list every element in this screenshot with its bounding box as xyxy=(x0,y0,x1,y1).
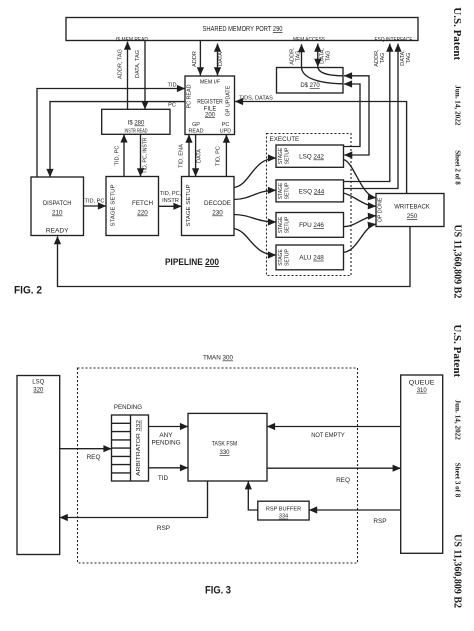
svg-text:200: 200 xyxy=(205,112,216,118)
svg-text:Sheet 3 of 8: Sheet 3 of 8 xyxy=(454,463,462,498)
wire NOT EMPTY queue to task fsm xyxy=(267,426,401,428)
wire TID,PC dispatch to fetch xyxy=(84,205,107,207)
svg-text:SETUP: SETUP xyxy=(285,147,291,164)
svg-text:250: 250 xyxy=(407,213,418,220)
svg-text:320: 320 xyxy=(33,388,44,394)
svg-text:GP: GP xyxy=(192,122,200,128)
svg-text:ESQ 244: ESQ 244 xyxy=(299,188,325,195)
svg-text:TID, PC,: TID, PC, xyxy=(160,191,182,197)
svg-text:PENDING: PENDING xyxy=(151,440,180,447)
wire REQ lsq to arbitrator xyxy=(60,448,112,450)
wire ADDR mem access up + D$ curve xyxy=(302,44,344,84)
svg-text:UPD: UPD xyxy=(220,128,231,134)
wire TID,ENA decode to register file xyxy=(188,135,190,177)
svg-text:FIG. 3: FIG. 3 xyxy=(205,585,231,597)
fetch 220 xyxy=(106,177,159,236)
pending queue slots xyxy=(112,423,131,473)
svg-text:DATA, TAG: DATA, TAG xyxy=(135,50,141,78)
svg-text:READ: READ xyxy=(189,128,204,134)
svg-text:TID, ENA: TID, ENA xyxy=(179,144,185,168)
writeback 250 xyxy=(376,194,444,227)
svg-text:NOT EMPTY: NOT EMPTY xyxy=(311,432,345,439)
wire decode to ALU xyxy=(234,229,276,256)
queue 310 xyxy=(401,375,443,553)
wire LSQ data to D$ double xyxy=(344,76,369,155)
svg-text:MEM I/F: MEM I/F xyxy=(200,80,221,86)
svg-text:TAG: TAG xyxy=(406,52,412,63)
svg-text:210: 210 xyxy=(52,210,63,217)
svg-text:ESQ INTERFACE: ESQ INTERFACE xyxy=(375,37,413,43)
wire RSP queue to rsp buffer xyxy=(309,509,401,511)
svg-text:LSQ: LSQ xyxy=(32,380,44,386)
svg-text:STAGE SETUP: STAGE SETUP xyxy=(186,184,192,226)
svg-text:TID, PC: TID, PC xyxy=(115,146,121,166)
svg-text:PENDING: PENDING xyxy=(114,404,142,411)
svg-text:SETUP: SETUP xyxy=(285,249,291,266)
LSQ 242 xyxy=(276,145,344,167)
svg-text:330: 330 xyxy=(219,450,230,456)
wire TID dispatch to register file xyxy=(37,89,185,178)
dispatch 210 xyxy=(31,177,84,236)
wire TID arbitrator to task fsm xyxy=(149,467,189,469)
svg-text:OP DONE: OP DONE xyxy=(378,197,384,222)
svg-text:PC READ: PC READ xyxy=(187,84,193,108)
execute dashed box xyxy=(267,134,352,276)
svg-text:FIG. 2: FIG. 2 xyxy=(14,285,42,297)
wire FPU to writeback xyxy=(344,216,377,227)
svg-text:STAGE: STAGE xyxy=(278,182,284,199)
wire PC register file to dispatch xyxy=(50,102,185,177)
svg-text:TID, PC: TID, PC xyxy=(85,199,105,205)
wire decode to LSQ xyxy=(234,158,276,188)
wire ESQ interface DATA,TAG up xyxy=(344,44,399,189)
svg-text:TAG: TAG xyxy=(380,52,386,63)
svg-text:SETUP: SETUP xyxy=(285,216,291,233)
svg-text:DATA: DATA xyxy=(218,52,224,66)
FPU 246 xyxy=(276,213,344,238)
svg-text:334: 334 xyxy=(279,514,288,520)
svg-text:PIPELINE 200: PIPELINE 200 xyxy=(165,257,219,267)
svg-text:RSP BUFFER: RSP BUFFER xyxy=(266,507,301,513)
shared memory port 290 xyxy=(66,18,418,41)
svg-text:TID, PC: TID, PC xyxy=(216,146,222,166)
svg-text:TID: TID xyxy=(158,475,169,482)
svg-text:MEM ACCESS: MEM ACCESS xyxy=(293,37,325,43)
wire TID,PC decode to register file xyxy=(225,135,227,177)
svg-text:WRITEBACK: WRITEBACK xyxy=(394,204,430,211)
wire DATA mem access double + D$ curve xyxy=(317,44,319,67)
svg-text:ADDR, TAG: ADDR, TAG xyxy=(118,49,124,79)
wire DATA,TAG I$ mem read down xyxy=(144,41,146,110)
wire RSP task fsm to lsq xyxy=(60,481,208,518)
svg-text:ALU 248: ALU 248 xyxy=(299,255,324,262)
svg-text:I$ 280: I$ 280 xyxy=(128,121,145,127)
svg-text:DECODE: DECODE xyxy=(204,200,231,207)
wire ANY PENDING arbitrator to task fsm xyxy=(149,426,189,428)
wire ready feedback writeback to dispatch xyxy=(58,227,411,287)
svg-text:TAG: TAG xyxy=(296,50,302,61)
wire DATA register file to decode xyxy=(195,135,197,177)
rsp buffer 334 xyxy=(258,501,309,520)
svg-text:EXECUTE: EXECUTE xyxy=(270,136,300,143)
svg-text:ANY: ANY xyxy=(159,432,173,439)
svg-text:TID, PC, INSTR: TID, PC, INSTR xyxy=(143,138,149,174)
svg-text:Jun. 14, 2022: Jun. 14, 2022 xyxy=(454,400,462,441)
svg-text:US 11,360,809 B2: US 11,360,809 B2 xyxy=(452,534,463,608)
wire ESQ to writeback xyxy=(344,193,377,206)
svg-text:TMAN 300: TMAN 300 xyxy=(203,355,234,362)
svg-text:PC: PC xyxy=(222,122,230,128)
wire REQ task fsm to queue xyxy=(267,467,401,469)
LSQ 320 xyxy=(17,376,60,555)
wire ADDR,TAG I$ mem read up xyxy=(127,42,129,110)
svg-text:SHARED MEMORY PORT 290: SHARED MEMORY PORT 290 xyxy=(203,26,283,33)
svg-text:TID: TID xyxy=(167,83,176,89)
svg-text:REQ: REQ xyxy=(87,454,101,461)
svg-text:REQ: REQ xyxy=(336,477,350,484)
TMAN 300 dashed box xyxy=(78,368,358,563)
svg-text:STAGE: STAGE xyxy=(278,216,284,233)
arbitrator divider xyxy=(130,415,132,481)
svg-text:READY: READY xyxy=(46,228,69,235)
svg-text:I$ MEM READ: I$ MEM READ xyxy=(116,37,148,43)
wire rsp buffer to task fsm xyxy=(248,481,257,510)
svg-text:D$ 270: D$ 270 xyxy=(300,83,320,89)
wire LSQ addr to D$ xyxy=(344,84,361,147)
wire DATA register file double xyxy=(217,44,219,76)
svg-text:SETUP: SETUP xyxy=(285,182,291,199)
wire DATA curve in D$ xyxy=(318,68,344,76)
I$ instruction cache 280 xyxy=(102,109,170,134)
wire decode to FPU xyxy=(234,215,276,223)
svg-text:Sheet 2 of 8: Sheet 2 of 8 xyxy=(454,150,462,185)
decode 230 xyxy=(182,177,235,236)
pending queue box xyxy=(112,415,149,481)
svg-text:RSP: RSP xyxy=(157,525,170,532)
svg-text:INSTR READ: INSTR READ xyxy=(125,129,148,135)
svg-text:230: 230 xyxy=(212,210,223,217)
svg-text:QUEUE: QUEUE xyxy=(409,381,435,387)
svg-text:STAGE SETUP: STAGE SETUP xyxy=(111,184,117,226)
svg-text:FETCH: FETCH xyxy=(132,200,153,207)
svg-text:ADDR: ADDR xyxy=(192,51,198,67)
svg-text:TASK FSM: TASK FSM xyxy=(212,442,238,448)
task fsm 330 xyxy=(188,413,267,481)
svg-text:PC: PC xyxy=(168,103,176,109)
wire LSQ to writeback xyxy=(344,160,377,198)
wire ESQ interface ADDR,TAG up xyxy=(344,44,390,182)
ESQ 244 xyxy=(276,180,344,202)
register file 200 xyxy=(185,76,235,135)
svg-text:Jun. 14, 2022: Jun. 14, 2022 xyxy=(454,85,462,126)
svg-text:RSP: RSP xyxy=(373,518,386,525)
svg-text:US 11,360,809 B2: US 11,360,809 B2 xyxy=(452,224,463,298)
svg-text:STAGE: STAGE xyxy=(278,249,284,266)
svg-text:GP UPDATE: GP UPDATE xyxy=(226,85,232,116)
svg-text:U.S. Patent: U.S. Patent xyxy=(451,324,463,377)
svg-text:TIDS, DATAS: TIDS, DATAS xyxy=(239,96,273,102)
svg-text:220: 220 xyxy=(137,210,148,217)
wire ADDR to register file xyxy=(199,41,201,76)
svg-text:REGISTER: REGISTER xyxy=(197,100,223,106)
svg-text:STAGE: STAGE xyxy=(278,147,284,164)
svg-text:FPU 246: FPU 246 xyxy=(299,222,324,229)
wire TIDS,DATAS writeback to register file xyxy=(235,102,407,194)
wire TID,PC,INSTR fetch to decode xyxy=(159,205,182,207)
svg-text:INSTR: INSTR xyxy=(162,198,179,204)
svg-text:DATA: DATA xyxy=(197,149,203,163)
svg-text:TAG: TAG xyxy=(326,50,332,61)
svg-text:LSQ 242: LSQ 242 xyxy=(299,154,324,161)
D$ cache 270 xyxy=(277,68,344,94)
wire ALU to writeback xyxy=(344,224,377,252)
wire TID,PC fetch to I$ xyxy=(123,134,125,176)
svg-text:310: 310 xyxy=(417,388,428,394)
svg-text:ARBITRATOR 332: ARBITRATOR 332 xyxy=(136,420,142,476)
wire decode to ESQ xyxy=(234,190,276,199)
svg-text:U.S. Patent: U.S. Patent xyxy=(451,7,463,60)
wire TID,PC,INSTR I$ to fetch xyxy=(140,134,142,176)
svg-text:DISPATCH: DISPATCH xyxy=(43,200,72,207)
ALU 248 xyxy=(276,245,344,270)
